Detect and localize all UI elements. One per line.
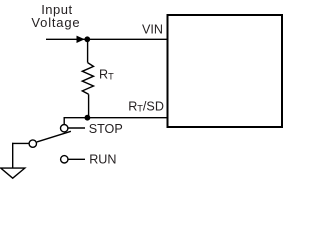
svg-text:Voltage: Voltage — [31, 15, 80, 30]
svg-text:STOP: STOP — [89, 122, 123, 136]
svg-text:RUN: RUN — [89, 153, 116, 167]
svg-text:VIN: VIN — [142, 23, 163, 37]
svg-text:RT/SD: RT/SD — [128, 99, 164, 113]
svg-text:RT: RT — [99, 68, 114, 82]
